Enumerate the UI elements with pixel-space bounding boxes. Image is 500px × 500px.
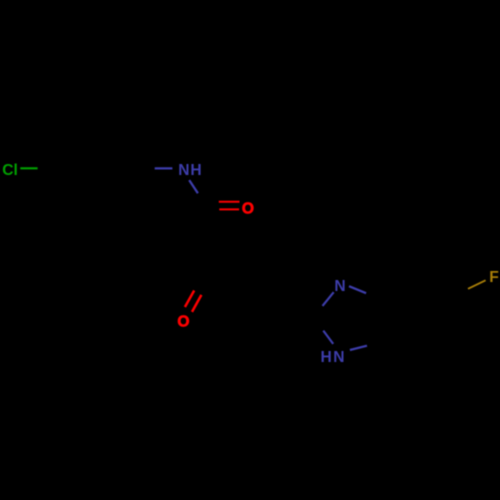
double bond C=O amide (red halves) [219, 201, 240, 203]
svg-text:F: F [489, 269, 499, 286]
bond C4-N (blue half) [155, 167, 173, 169]
bond N-C(amide) (blue half) [189, 180, 198, 193]
svg-text:O: O [242, 200, 254, 217]
bond C-F (gold half) [468, 280, 486, 289]
svg-text:HN: HN [321, 349, 347, 366]
svg-text:N: N [334, 278, 345, 295]
svg-text:O: O [177, 314, 189, 331]
bond N1-C2 (blue half) [323, 331, 333, 344]
double bond C=O ketone (red halves) [185, 291, 194, 308]
svg-text:Cl: Cl [2, 162, 18, 179]
bond N3-C3a (blue half) [349, 286, 366, 293]
bond Cl-C1 (green half) [20, 167, 37, 169]
bond N1-C7a (blue half) [350, 346, 367, 350]
svg-text:NH: NH [178, 162, 202, 179]
bond N3-C2 (blue half) [323, 292, 334, 306]
